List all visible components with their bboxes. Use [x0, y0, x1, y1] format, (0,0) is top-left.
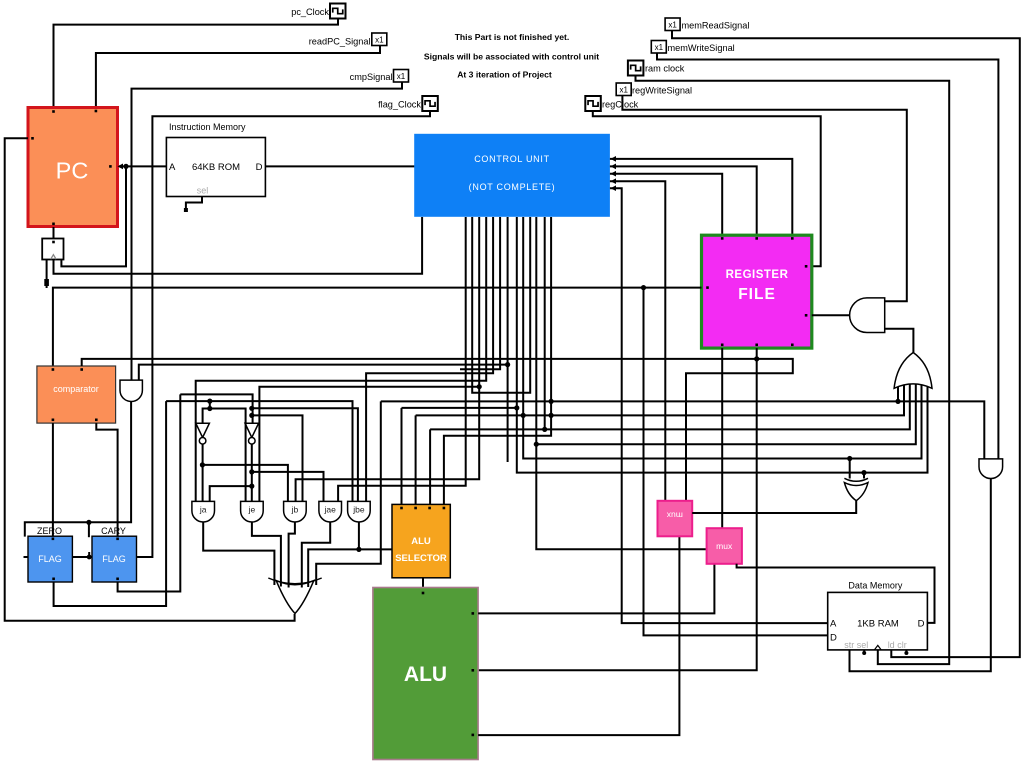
wire memReadSignal to RAM ld [672, 31, 1020, 658]
wire jbe output joins select line [358, 522, 360, 549]
svg-text:(NOT COMPLETE): (NOT COMPLETE) [469, 182, 556, 192]
mux1 [707, 528, 742, 564]
svg-text:CARY: CARY [101, 526, 126, 536]
wire line y408b to jbe mid [252, 408, 358, 501]
not gate N2 (pointing down) [245, 423, 259, 437]
and gate je [241, 501, 264, 522]
wire pc_Clock to PC top pin [54, 19, 339, 108]
svg-text:At 3 iteration of Project: At 3 iteration of Project [457, 70, 552, 80]
wire NOT2 line to jae left [252, 472, 324, 502]
svg-text:x1: x1 [375, 36, 384, 45]
svg-text:x1: x1 [619, 86, 628, 95]
wire OR input from ALU SELECTOR west pin [308, 549, 392, 587]
flag register CARY [92, 536, 137, 582]
wire comparator bottom2 to CARY flag [96, 423, 117, 536]
wire line y394 to NOT2 top [180, 394, 252, 423]
wire OR up input1 [897, 380, 899, 402]
svg-text:jb: jb [291, 505, 299, 515]
wire ALU out3 to mux2 bottom [478, 536, 679, 735]
wire NOT2 line to ja right [210, 486, 252, 501]
svg-text:FLAG: FLAG [102, 554, 126, 564]
wire regWriteSignal to AND gate [622, 96, 906, 302]
ram 1KB (Data Memory) [828, 592, 928, 650]
wire CU b7 branch to AND gate input [139, 365, 508, 381]
wire CU b6 stub line [460, 217, 500, 369]
wire ALU SELECTOR pin2 line to OR [416, 381, 904, 416]
and gate jb [284, 501, 307, 522]
wire XOR input1 from line5 [849, 459, 851, 479]
svg-text:SELECTOR: SELECTOR [395, 553, 447, 564]
and gate U6 (cmp enable) [120, 380, 142, 401]
wire link between y401 and y408 [209, 401, 211, 408]
wire REGISTER FILE bottom1 to mux [721, 348, 723, 528]
svg-text:D: D [256, 162, 263, 173]
wire NOT1 output to gate ja mid [202, 444, 204, 501]
wire cmpSignal to AND gate [132, 82, 403, 380]
svg-text:ALU: ALU [411, 536, 431, 547]
wire REGISTER FILE left to comparator [53, 288, 702, 366]
svg-text:FILE: FILE [738, 286, 776, 303]
wire CU b9 to OR line5 [523, 217, 921, 459]
svg-text:regClock: regClock [602, 100, 639, 110]
wire ram clock to RAM clk [636, 76, 950, 665]
comparator [37, 366, 116, 423]
wire CU b12 to OR line3 [544, 217, 546, 429]
wire line y401 to jbe left [166, 401, 352, 501]
svg-text:jae: jae [324, 505, 337, 515]
wire clock buffer to PC input junction [61, 166, 126, 266]
svg-text:ZERO: ZERO [37, 526, 62, 536]
svg-text:pc_Clock: pc_Clock [291, 7, 329, 17]
wire control unit out4 to mux2 top-left [610, 181, 665, 501]
svg-text:PC: PC [56, 158, 89, 184]
svg-text:cmpSignal: cmpSignal [350, 72, 393, 82]
wire OR line1 to AND gate [381, 401, 985, 459]
clock buffer box below PC [42, 239, 63, 260]
svg-text:regWriteSignal: regWriteSignal [632, 86, 692, 96]
svg-text:flag_Clock: flag_Clock [378, 100, 421, 110]
wire CU b1 to gate jae right input [338, 217, 466, 501]
and gate ja [192, 501, 215, 522]
wire ROM sel stub [186, 197, 202, 212]
alu [373, 588, 478, 760]
wire branch to RAM D [644, 288, 828, 636]
not gate N1 (pointing down) [196, 423, 210, 437]
wire mux bottom-right to RAM D [737, 564, 935, 623]
svg-text:x1: x1 [668, 21, 677, 30]
wire ROM A to PC right pin [119, 165, 166, 167]
input regClock (clock source) [585, 96, 601, 111]
rom 64KB (Instruction Memory) [166, 138, 265, 197]
wire ALU SELECTOR pin3 line to OR [430, 381, 910, 429]
input ram clock (clock source) [628, 61, 644, 76]
svg-text:readPC_Signal: readPC_Signal [309, 37, 371, 47]
wire XOR input2 from line6 [863, 473, 865, 479]
svg-text:jbe: jbe [352, 505, 365, 515]
svg-text:Signals will be associated wit: Signals will be associated with control … [424, 52, 599, 62]
wire control unit out5 to RAM A [610, 188, 828, 623]
wire CU b3 branch to gate je right input [259, 387, 479, 502]
svg-text:ALU: ALU [404, 663, 447, 686]
stub RAM clr [905, 650, 907, 654]
wire line y408 NOT1 and je left [203, 409, 246, 502]
svg-text:comparator: comparator [53, 384, 99, 394]
svg-text:D: D [830, 633, 837, 644]
wire ALU out1 to mux bottom [478, 564, 714, 614]
wire ALU SELECTOR to ALU [422, 578, 424, 593]
svg-text:x1: x1 [655, 43, 664, 52]
wire XOR output to mux line [692, 501, 856, 513]
wire NOT1 line to jb left [202, 465, 288, 502]
register file [702, 235, 812, 348]
wire CU b5 to gate jbe right input [366, 217, 493, 501]
wire line1 branch to jump OR input6 [316, 401, 381, 585]
svg-text:memReadSignal: memReadSignal [682, 21, 750, 31]
and gate U2 (facing left, to REGISTER FILE) [850, 298, 885, 333]
wire ZERO left stub [24, 556, 29, 558]
wire CU b2 to CU b10 link [472, 217, 530, 393]
xor gate U4 (pointing down) [844, 483, 868, 501]
wire comparator top2 long line [82, 359, 793, 501]
wire CU b11 to mux select [536, 217, 706, 549]
svg-text:This Part is not finished yet.: This Part is not finished yet. [455, 32, 570, 42]
wire memWriteSignal to AND gate [657, 53, 998, 459]
stub clock buffer left output [46, 260, 48, 289]
svg-text:x1: x1 [397, 72, 406, 81]
wire NOT2 output to gate je mid [251, 444, 253, 501]
wire regClock to REGISTER FILE [593, 111, 821, 266]
wire comparator bottom1 to ZERO flag [52, 423, 54, 536]
wire control unit out3 to REGISTER FILE top3 [610, 174, 722, 236]
wire line y394 left drop to CARY bottom [118, 394, 181, 591]
svg-text:FLAG: FLAG [38, 554, 62, 564]
wire ROM D to control unit [266, 165, 416, 167]
wire PC bottom pin to clock buffer [53, 227, 55, 239]
wire control unit out1 to REGISTER FILE top1 [610, 159, 792, 236]
or gate U7 (jump OR, pointing down) [276, 581, 314, 614]
register PC [28, 108, 118, 227]
svg-text:ram clock: ram clock [645, 64, 685, 74]
wire CU b8 down to OR line6 [517, 217, 928, 473]
wire mux2 output line [692, 512, 697, 514]
svg-text:ja: ja [199, 505, 207, 515]
wire jb output to OR [289, 522, 295, 588]
wire AND U2 lower input from OR [885, 329, 914, 353]
svg-text:Data Memory: Data Memory [848, 581, 903, 591]
wire AND U5 output to RAM str [850, 479, 991, 672]
flag register ZERO [28, 536, 72, 582]
svg-text:str sel: str sel [844, 640, 868, 650]
and gate jae [319, 501, 342, 522]
wire je output to OR [252, 522, 281, 587]
wire AND U2 output to REGISTER FILE [812, 314, 850, 316]
svg-text:1KB RAM: 1KB RAM [857, 619, 899, 630]
or gate U3 (pointing up) [894, 353, 932, 389]
wire NOT2 dot line to jb right input [252, 415, 303, 501]
svg-text:mux: mux [716, 541, 733, 551]
svg-text:REGISTER: REGISTER [726, 269, 789, 281]
wire flag_Clock to CARY flag [137, 111, 431, 557]
wire CU b4 to gate ja left input [196, 217, 487, 501]
wire REGISTER FILE bottom2 to ALU out2 [478, 348, 757, 670]
svg-text:Instruction Memory: Instruction Memory [169, 122, 246, 132]
stub RAM sel [863, 650, 865, 654]
wire clock buffer to control unit [54, 217, 423, 274]
wire ja output to OR [203, 522, 274, 585]
wire CU b13 to ALU SELECTOR pin4 line [444, 217, 551, 505]
wire CU b3 to gate jb mid input [296, 217, 480, 501]
wire CU b7 stub down [507, 217, 509, 462]
wire jae output to OR [302, 522, 330, 588]
alu selector [392, 504, 450, 577]
svg-text:CONTROL UNIT: CONTROL UNIT [474, 154, 550, 164]
and gate U5 (pointing down, memory write) [979, 459, 1003, 479]
wire ALU SELECTOR pin1 line [402, 407, 517, 409]
wire branch to CARY top [88, 522, 90, 537]
svg-text:ld clr: ld clr [888, 640, 907, 650]
wire line y401 left drop to ZERO bottom [54, 401, 167, 606]
and gate jbe [348, 501, 371, 522]
wire PC left pin to jump OR output [5, 138, 295, 620]
wire AND U6 output to flags line [25, 402, 131, 537]
wire control unit out2 to REGISTER FILE top2 [610, 166, 757, 236]
svg-text:A: A [830, 619, 837, 630]
svg-text:mux: mux [666, 511, 683, 521]
mux2 (rotated 180) [658, 501, 693, 537]
svg-text:D: D [918, 619, 925, 630]
svg-text:je: je [248, 505, 256, 515]
wire readPC_Signal to PC top pin [96, 46, 380, 108]
input memReadSignal (pin x1) [665, 18, 680, 31]
svg-text:64KB ROM: 64KB ROM [192, 162, 240, 173]
wire ZERO to CARY [72, 556, 92, 558]
svg-text:A: A [169, 162, 176, 173]
input memWriteSignal (pin x1) [651, 41, 666, 54]
control unit U1 [414, 134, 610, 217]
input regWriteSignal (pin x1) [616, 83, 631, 96]
svg-text:memWriteSignal: memWriteSignal [668, 43, 735, 53]
svg-text:sel: sel [197, 186, 209, 196]
wire OR line4 from b11 [536, 381, 916, 444]
note text [424, 32, 599, 80]
